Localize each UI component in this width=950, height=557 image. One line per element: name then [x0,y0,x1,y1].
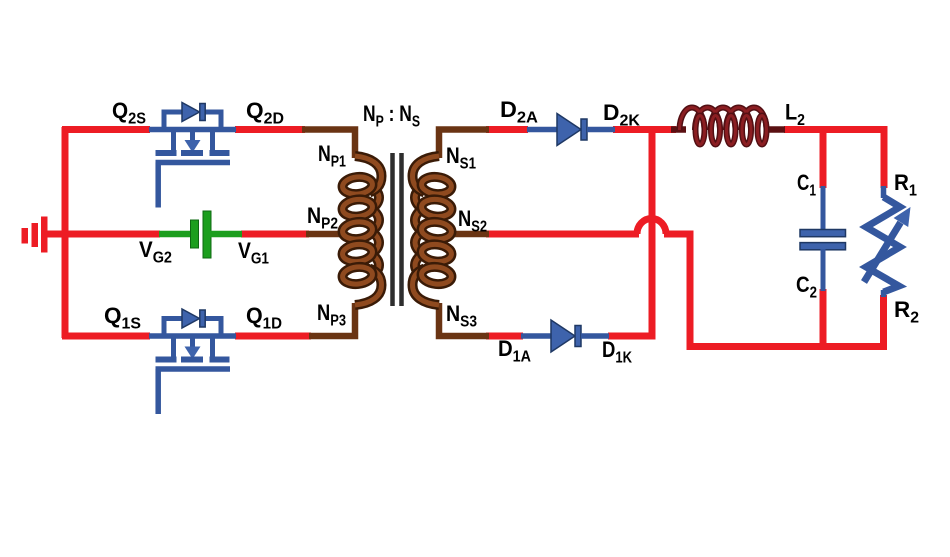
battery VG lead left [159,231,192,238]
resistor R bottom stub [881,290,887,297]
svg-text:Q2S: Q2S [112,98,146,128]
wire cathode-join vertical [649,126,656,340]
inductor L2 coil [680,108,767,145]
transformer tap NP1 [302,130,355,159]
transformer tap NS1 [439,130,489,159]
svg-text:Q1D: Q1D [246,303,282,333]
wire center-tap down to output bottom rail [664,234,886,347]
wire C2 bottom lead [820,289,827,350]
svg-text:C2: C2 [796,272,817,302]
wire D1K to join vertical [608,333,656,340]
svg-text:D2A: D2A [500,97,538,127]
svg-text:Q2D: Q2D [246,98,284,128]
capacitor C bottom lead [821,249,826,291]
svg-text:D1K: D1K [602,337,633,367]
wire D2K to L2 [613,126,676,133]
capacitor C bottom plate [800,243,846,250]
transistor Q1 [149,309,236,414]
wire top rail left [62,126,150,133]
transformer tap NS3 [439,303,489,336]
svg-text:NS1: NS1 [446,143,476,173]
svg-text:Q1S: Q1S [104,303,141,333]
transformer tap NP3 [309,303,355,336]
wire D2A from NS1 [486,126,528,133]
wire bottom rail left [62,333,150,340]
transistor Q2 [149,103,236,208]
wire L2 to right corner down to R1 [784,130,884,189]
battery VIN bar small [22,228,29,244]
battery VG lead right [210,231,242,238]
transformer tap NP2 [306,231,344,238]
svg-text:D1A: D1A [498,336,531,366]
svg-text:C1: C1 [797,170,816,200]
svg-text:NS3: NS3 [446,301,477,331]
inductor L2 lead right [764,126,785,133]
svg-text:NP1: NP1 [318,141,346,171]
svg-text:NP : NS: NP : NS [363,101,420,131]
wire mid rail VG1 to NP2 [241,231,309,238]
svg-text:R1: R1 [894,170,917,200]
battery VIN bar large [41,217,48,253]
wire mid rail from NS2 to hop [486,231,639,238]
svg-text:L2: L2 [785,100,805,130]
battery VIN bar medium [32,223,39,247]
wire hop over vertical [637,219,666,235]
resistor R top lead [881,186,887,198]
capacitor C top lead [821,186,826,232]
capacitor C top plate [800,230,846,237]
wire left bus vertical [62,127,69,338]
battery VG tall plate [203,211,211,258]
svg-text:NP3: NP3 [317,300,346,330]
svg-text:NP2: NP2 [307,203,338,233]
inductor L2 lead left [671,126,686,133]
wire mid rail from source battery [44,231,160,238]
wire C1 branch from top rail [820,130,827,189]
resistor R zigzag [866,197,900,292]
svg-text:VG2: VG2 [139,237,172,267]
svg-text:D2K: D2K [603,100,641,130]
transformer secondary winding [413,156,453,305]
transformer tap NS2 [450,231,489,238]
transformer core bars [393,153,402,306]
resistor wiper arrow shaft [864,223,901,283]
diode D2 [527,114,615,146]
wire bottom rail Q1D to transformer [235,333,311,340]
transformer primary winding [342,156,382,305]
wire top rail Q2D to transformer [235,126,305,133]
svg-text:VG1: VG1 [238,238,269,268]
battery VG short plate [191,220,199,248]
diode D1 [521,320,609,352]
wire D1A from NS3 [486,333,523,340]
resistor wiper arrow head [894,207,911,227]
wire R2 bottom lead [880,295,887,350]
svg-text:R2: R2 [894,297,919,327]
